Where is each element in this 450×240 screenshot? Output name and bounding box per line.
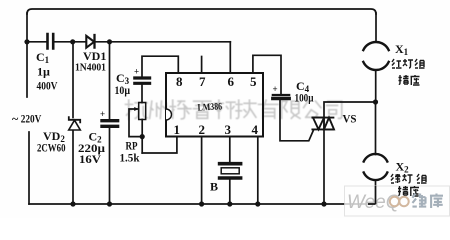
socket X2 — [364, 154, 388, 180]
label X2 socket (插座) — [398, 186, 419, 196]
svg-text:5: 5 — [250, 74, 257, 89]
label C4 — [295, 79, 314, 105]
wire B to rail — [229, 180, 231, 204]
wire second rail left segment — [27, 41, 47, 43]
wire VD1 to pin6 corner — [95, 41, 231, 43]
capacitor C3 — [135, 78, 150, 83]
wire C4 to triac gate — [280, 100, 314, 141]
zener diode VD2 — [69, 117, 81, 130]
wire X2 bottom stub — [375, 180, 377, 204]
node pin2 bottom — [199, 201, 204, 206]
wire RP to pin1 — [142, 137, 177, 154]
label C2 — [78, 130, 105, 167]
node triac top — [373, 99, 378, 104]
label X1 red lamp group (红灯组) — [392, 59, 425, 68]
wire node to X2 — [375, 102, 377, 155]
node junction VD2 top — [70, 39, 75, 44]
svg-text:7: 7 — [199, 74, 206, 89]
label VD2 — [37, 129, 66, 155]
svg-text:16V: 16V — [79, 152, 101, 166]
svg-text:400V: 400V — [37, 79, 58, 93]
svg-text:+: + — [100, 109, 105, 119]
svg-text:1.5k: 1.5k — [120, 151, 140, 165]
svg-text:8: 8 — [176, 74, 183, 89]
op-amp U1 LM386 body — [166, 73, 263, 137]
wire pin2 down — [201, 137, 203, 205]
capacitor C4 — [273, 94, 289, 96]
svg-text:2: 2 — [199, 122, 206, 137]
node triac bottom — [321, 201, 326, 206]
wire VD2 branch upper — [72, 42, 74, 118]
wire C2 branch lower — [109, 128, 111, 204]
wire top rail — [27, 9, 376, 14]
wire triac bottom terminal — [323, 129, 325, 204]
svg-text:100µ: 100µ — [295, 93, 314, 105]
wire RP bottom — [141, 120, 143, 154]
node C2 bottom — [107, 201, 112, 206]
wire X2 stub over box — [368, 186, 376, 204]
wire pin5 bridge to C4 — [253, 55, 281, 93]
wire pin8 riser and bridge to C3 — [142, 56, 178, 76]
svg-text:10µ: 10µ — [115, 83, 131, 97]
label pin numbers bottom — [174, 122, 259, 137]
label pin numbers top — [176, 74, 257, 89]
watermark weiku characters (维库) — [412, 194, 443, 209]
wire C1 to VD1 — [55, 41, 87, 43]
svg-text:3: 3 — [225, 122, 232, 137]
wire pin3 to B — [229, 137, 231, 163]
wire pin4 down — [257, 137, 259, 205]
node VD2 bottom — [70, 201, 75, 206]
node RP junction — [140, 134, 145, 139]
svg-text:4: 4 — [252, 122, 259, 137]
wire left AC line lower — [28, 132, 30, 204]
node junction left — [24, 39, 29, 44]
arrow RP wiper head — [134, 107, 138, 111]
label RP — [120, 139, 140, 165]
label C3 — [115, 71, 131, 97]
wire bottom rail — [29, 203, 376, 205]
svg-text:2CW60: 2CW60 — [37, 141, 66, 155]
wire VD2 branch lower — [72, 131, 74, 205]
buzzer B — [220, 164, 241, 178]
svg-text:+: + — [273, 84, 278, 94]
svg-text:1µ: 1µ — [37, 65, 50, 79]
wire X1 top stub — [375, 13, 377, 42]
wire pin7 stub — [201, 57, 203, 74]
wire left AC line upper — [26, 13, 28, 97]
wire C3 to RP — [141, 85, 143, 103]
wire triac top terminal — [324, 102, 376, 118]
watermark WeeQoo box — [345, 186, 450, 216]
wire C2 branch upper — [109, 42, 111, 119]
svg-text:6: 6 — [228, 74, 235, 89]
capacitor C1 — [48, 34, 54, 49]
label VD1 — [75, 49, 106, 74]
label X2 green lamp group (绿灯组) — [391, 174, 413, 183]
resistor RP body — [139, 103, 146, 120]
triac VS — [312, 118, 334, 130]
svg-text:1: 1 — [174, 122, 181, 137]
node pin4 bottom — [255, 201, 260, 206]
wire pin6 riser — [229, 42, 231, 73]
svg-text:+: + — [134, 67, 139, 77]
diode VD1 — [86, 35, 94, 48]
wire X1 bottom to node — [375, 70, 377, 102]
svg-text:LM386: LM386 — [197, 101, 222, 113]
svg-text:~: ~ — [12, 112, 19, 126]
label X1 socket (插座) — [399, 75, 420, 85]
svg-text:220V: 220V — [21, 112, 42, 126]
socket X1 — [363, 42, 388, 70]
capacitor C2 — [102, 121, 118, 127]
op-amp notch — [166, 109, 172, 120]
watermark 杭州将睿科技有限公司 — [126, 100, 342, 119]
svg-text:B: B — [210, 180, 218, 194]
svg-text:WeeQ: WeeQ — [347, 192, 401, 213]
svg-text:1N4001: 1N4001 — [75, 62, 106, 74]
node B bottom — [227, 201, 232, 206]
label C1 — [36, 50, 58, 93]
node junction C2 top — [107, 39, 112, 44]
wire RP wiper — [129, 109, 142, 137]
svg-text:VS: VS — [343, 112, 357, 126]
